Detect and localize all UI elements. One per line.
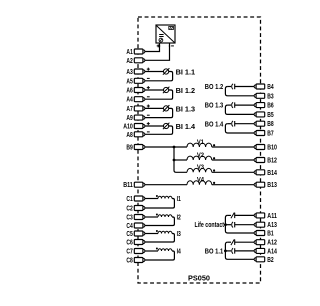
svg-text:B6: B6	[267, 103, 273, 110]
svg-text:C3: C3	[126, 215, 132, 222]
svg-text:V1: V1	[197, 139, 204, 146]
terminal C8	[126, 258, 144, 265]
svg-text:C6: C6	[126, 240, 132, 247]
power supply unit	[156, 25, 175, 43]
svg-text:BO 1.3: BO 1.3	[205, 103, 223, 110]
terminal A14	[254, 248, 277, 255]
terminal B3	[254, 93, 274, 100]
terminal A11	[254, 213, 277, 220]
svg-text:B11: B11	[123, 182, 133, 189]
wire contact to B6	[235, 104, 255, 106]
svg-text:BO 1.4: BO 1.4	[205, 121, 223, 128]
terminal A1	[126, 49, 144, 56]
svg-text:C1: C1	[126, 196, 132, 203]
inductor coil V1	[187, 143, 212, 147]
terminal A10	[123, 124, 145, 131]
svg-text:BI 1.3: BI 1.3	[176, 106, 196, 113]
svg-text:A6: A6	[126, 88, 132, 95]
svg-text:I4: I4	[177, 249, 181, 256]
wire A3 to optocoupler BI 1.1	[145, 71, 164, 73]
svg-text:I3: I3	[177, 231, 181, 238]
wire A2 to power supply -	[145, 45, 170, 60]
relay contact BO 1.2	[232, 84, 233, 90]
terminal B14	[254, 170, 277, 177]
svg-text:C8: C8	[126, 258, 132, 265]
terminal C6	[126, 240, 144, 247]
terminal C7	[126, 249, 144, 256]
polarity + at A3	[147, 68, 150, 71]
svg-text:BI 1.2: BI 1.2	[176, 88, 196, 95]
bracket wire BO 1.4	[225, 124, 255, 133]
wire contact to B8	[235, 123, 255, 125]
polarity dot at V1	[213, 144, 215, 146]
inductor coil V3	[187, 168, 212, 172]
terminal A4	[126, 97, 144, 104]
return wire BI 1.3 to A9	[145, 108, 173, 117]
optocoupler input BI 1.1	[163, 68, 170, 75]
return wire I4 to C8	[145, 251, 175, 260]
svg-text:A5: A5	[126, 78, 132, 85]
polarity dot at I3	[156, 230, 158, 232]
current transformer coil I1	[158, 196, 172, 198]
svg-text:B4: B4	[267, 84, 273, 91]
wire C3 to coil I2	[145, 216, 158, 218]
svg-text:BO 1.1: BO 1.1	[205, 249, 223, 256]
svg-text:C5: C5	[126, 231, 132, 238]
terminal B10	[254, 145, 277, 152]
polarity - at A5	[147, 77, 150, 79]
wire to NO contact life contact	[225, 224, 231, 226]
bracket wire BO 1.1	[225, 242, 255, 259]
junction node BO 1.1	[224, 250, 227, 253]
terminal A13	[254, 222, 277, 229]
polarity - at A9	[147, 114, 150, 116]
svg-text:A1: A1	[126, 49, 132, 56]
svg-text:B10: B10	[267, 145, 277, 152]
terminal B8	[254, 121, 274, 128]
wire to contact BO 1.3	[228, 104, 231, 106]
wire to contact BO 1.2	[228, 86, 231, 88]
bracket wire BO 1.2	[225, 87, 255, 96]
svg-text:A8: A8	[126, 132, 132, 139]
terminal C2	[126, 206, 144, 213]
svg-text:C2: C2	[126, 206, 132, 213]
polarity dot at I4	[156, 248, 158, 250]
return wire I3 to C6	[145, 234, 175, 243]
terminal A8	[126, 132, 144, 139]
polarity dot at V3	[213, 169, 215, 171]
svg-text:B3: B3	[267, 93, 273, 100]
junction node life contact	[224, 223, 227, 226]
return wire BI 1.1 to A5	[145, 72, 173, 81]
terminal C1	[126, 196, 144, 203]
junction node at V1	[173, 146, 176, 149]
svg-text:B5: B5	[267, 112, 273, 119]
terminal C4	[126, 223, 144, 230]
svg-text:V4: V4	[197, 177, 204, 184]
optocoupler input BI 1.3	[163, 105, 170, 112]
wire A1 to power supply +	[145, 45, 160, 52]
svg-text:B8: B8	[267, 121, 273, 128]
bracket wire life contact	[225, 215, 255, 233]
wire to NC contact BO 1.1	[228, 241, 231, 243]
svg-text:V3: V3	[197, 164, 204, 171]
polarity dot at V4	[213, 182, 215, 184]
wire C1 to coil I1	[145, 198, 158, 200]
terminal B9	[126, 145, 144, 152]
wire C5 to coil I3	[145, 233, 158, 235]
svg-text:I2: I2	[177, 215, 181, 222]
svg-text:C7: C7	[126, 249, 132, 256]
inductor coil V2	[187, 156, 212, 160]
wire C7 to coil I4	[145, 250, 158, 252]
terminal A9	[126, 115, 144, 122]
svg-text:V2: V2	[197, 152, 204, 159]
svg-text:PS050: PS050	[188, 276, 210, 283]
terminal B2	[254, 257, 274, 264]
svg-text:I1: I1	[177, 196, 181, 203]
current transformer coil I4	[158, 249, 172, 251]
wire A7 to optocoupler BI 1.3	[145, 107, 164, 109]
junction node at V2	[173, 159, 176, 162]
terminal A12	[254, 240, 277, 247]
wire contact to B4	[235, 86, 255, 88]
relay contact BO 1.3	[232, 102, 233, 108]
terminal A2	[126, 58, 144, 65]
polarity dot at I2	[156, 214, 158, 216]
NC relay contact life contact (A11)	[231, 213, 235, 219]
terminal C5	[126, 231, 144, 238]
polarity + at A6	[147, 86, 150, 89]
module boundary PS050 (dashed outline)	[138, 17, 261, 283]
bracket wire BO 1.3	[225, 105, 255, 114]
wire to NO contact BO 1.1	[225, 250, 231, 252]
svg-text:A7: A7	[126, 106, 132, 113]
wire B9 to coil V1	[145, 146, 187, 148]
wire V4 to B13	[212, 184, 255, 186]
pin + of power supply	[157, 43, 160, 47]
NO relay contact BO 1.1 (A14)	[232, 248, 233, 254]
svg-text:B12: B12	[267, 158, 277, 165]
svg-text:A13: A13	[267, 222, 277, 229]
optocoupler input BI 1.4	[163, 123, 170, 130]
polarity - at A8	[147, 131, 150, 133]
current transformer coil I2	[158, 215, 172, 217]
svg-text:B9: B9	[126, 145, 132, 152]
inductor coil V4	[187, 181, 212, 185]
relay contact BO 1.4	[232, 121, 233, 127]
terminal B11	[123, 182, 145, 189]
polarity + at A7	[147, 105, 150, 108]
terminal C3	[126, 215, 144, 222]
svg-text:A14: A14	[267, 248, 277, 255]
wire A6 to optocoupler BI 1.2	[145, 89, 164, 91]
terminal B1	[254, 231, 274, 238]
terminal B4	[254, 84, 274, 91]
svg-text:BI 1.4: BI 1.4	[176, 124, 196, 131]
svg-text:A12: A12	[267, 240, 277, 247]
svg-text:Life contact: Life contact	[195, 222, 225, 229]
wire V3 to B14	[212, 171, 255, 173]
wire to contact BO 1.4	[228, 123, 231, 125]
return wire I1 to C2	[145, 199, 175, 209]
svg-text:A4: A4	[126, 97, 132, 104]
svg-text:A10: A10	[123, 124, 133, 131]
svg-text:B2: B2	[267, 257, 273, 264]
current transformer coil I3	[158, 231, 172, 233]
svg-text:B14: B14	[267, 170, 277, 177]
polarity dot at I1	[156, 195, 158, 197]
polarity dot at V2	[213, 157, 215, 159]
svg-text:B1: B1	[267, 231, 273, 238]
terminal A3	[126, 69, 144, 76]
svg-text:B13: B13	[267, 182, 277, 189]
svg-text:A11: A11	[267, 213, 277, 220]
optocoupler input BI 1.2	[163, 87, 170, 94]
polarity - at A4	[147, 96, 150, 98]
terminal A5	[126, 78, 144, 85]
branch wire to V2 and V3	[174, 147, 187, 172]
return wire BI 1.2 to A4	[145, 90, 173, 99]
NC relay contact BO 1.1 (A12)	[231, 239, 235, 245]
svg-text:BO 1.2: BO 1.2	[205, 84, 223, 91]
NO relay contact life contact (A13)	[232, 222, 233, 228]
svg-text:B7: B7	[267, 131, 273, 138]
terminal A7	[126, 106, 144, 113]
wire V2 to B12	[212, 159, 255, 161]
terminal B13	[254, 182, 277, 189]
svg-text:A9: A9	[126, 115, 132, 122]
polarity + at A10	[147, 122, 150, 125]
wire V1 to B10	[212, 146, 255, 148]
svg-text:BI 1.1: BI 1.1	[176, 69, 196, 76]
terminal B6	[254, 103, 274, 110]
svg-text:C4: C4	[126, 223, 132, 230]
terminal A6	[126, 88, 144, 95]
wire to NC contact life contact	[228, 214, 231, 216]
svg-text:A3: A3	[126, 69, 132, 76]
terminal B5	[254, 112, 274, 119]
wire A10 to optocoupler BI 1.4	[145, 125, 164, 127]
svg-text:A2: A2	[126, 58, 132, 65]
return wire BI 1.4 to A8	[145, 126, 173, 134]
terminal B7	[254, 131, 274, 138]
terminal B12	[254, 158, 277, 165]
return wire I2 to C4	[145, 217, 175, 226]
wire B11 to coil V4	[145, 184, 187, 186]
pin - of power supply	[170, 43, 174, 47]
